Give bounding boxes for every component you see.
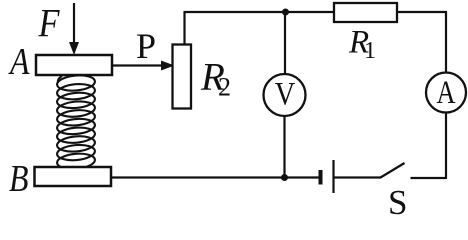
svg-text:A: A	[437, 75, 456, 111]
junction node bottom	[281, 174, 288, 181]
svg-text:F: F	[38, 0, 60, 45]
wire junction to voltmeter	[284, 12, 286, 74]
spring	[56, 74, 95, 171]
wire R1 to right corner	[397, 12, 446, 73]
wire R2 top	[183, 12, 185, 45]
top wire	[184, 11, 335, 13]
bar B (bottom plate)	[35, 167, 112, 186]
force arrow F	[69, 3, 79, 55]
resistor R1	[334, 3, 397, 22]
switch S blade	[381, 163, 405, 178]
svg-text:S: S	[388, 183, 407, 219]
svg-text:A: A	[7, 41, 30, 83]
svg-text:V: V	[275, 77, 296, 113]
wire battery to switch	[335, 176, 382, 178]
battery cell	[319, 170, 323, 185]
svg-text:P: P	[136, 26, 156, 66]
svg-text:B: B	[9, 158, 29, 200]
bar A (top plate)	[36, 55, 112, 75]
wire voltmeter to bottom	[283, 116, 285, 178]
rheostat R2	[173, 45, 192, 109]
svg-text:2: 2	[218, 73, 231, 102]
switch right contact wire	[411, 177, 447, 179]
wire ammeter to bottom	[445, 113, 447, 180]
ammeter A1	[426, 73, 466, 113]
pointer arrow P wire	[112, 61, 175, 71]
svg-text:1: 1	[364, 38, 376, 64]
bottom wire left	[111, 176, 319, 178]
voltmeter V	[264, 74, 306, 116]
junction node top	[282, 9, 289, 16]
